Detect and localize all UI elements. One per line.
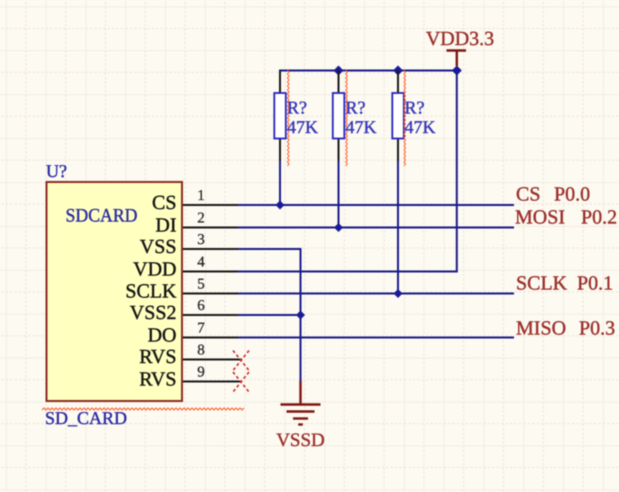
pin 3 stub — [183, 248, 238, 250]
svg-text:VSSD: VSSD — [276, 430, 325, 451]
junction R3/SCLK — [394, 289, 403, 298]
svg-text:P0.0: P0.0 — [554, 184, 590, 206]
svg-text:VDD3.3: VDD3.3 — [426, 28, 494, 50]
svg-text:R?: R? — [287, 98, 307, 118]
no-connect X on pin 9 — [233, 372, 249, 392]
wire VSS pin3 to ground — [238, 249, 301, 383]
svg-text:CS: CS — [516, 184, 540, 206]
svg-text:47K: 47K — [346, 117, 377, 137]
wire top bus connecting resistors — [280, 71, 457, 206]
wire SCLK net (pin5 to label) — [238, 293, 514, 295]
pin 7 stub — [183, 337, 238, 339]
svg-text:SCLK: SCLK — [125, 281, 177, 303]
pin 8 stub — [183, 359, 242, 361]
resistor R3 — [392, 71, 404, 162]
svg-text:3: 3 — [197, 232, 205, 248]
svg-text:47K: 47K — [287, 117, 318, 137]
junction R1/CS — [276, 201, 285, 210]
svg-text:8: 8 — [197, 343, 205, 359]
wire MISO net (pin7 to label) — [238, 337, 514, 339]
svg-text:MOSI: MOSI — [515, 207, 565, 229]
svg-text:9: 9 — [197, 365, 205, 381]
svg-text:6: 6 — [197, 298, 205, 314]
pin stubs (black) — [183, 205, 242, 382]
power symbol VDD3.3 — [447, 51, 467, 67]
svg-text:7: 7 — [197, 321, 205, 337]
no-connect X on pin 8 — [233, 351, 249, 371]
svg-text:4: 4 — [197, 255, 205, 271]
junction at R2 top — [334, 66, 344, 76]
svg-text:DI: DI — [155, 215, 176, 237]
svg-text:VDD: VDD — [133, 259, 176, 281]
svg-text:5: 5 — [197, 277, 205, 293]
pin 9 stub — [183, 381, 242, 383]
wire VSS2 pin6 to ground line — [238, 314, 301, 316]
ground symbol VSSD — [281, 381, 321, 425]
svg-text:1: 1 — [197, 188, 205, 204]
resistor R2 — [333, 71, 345, 162]
pin 2 stub — [183, 227, 238, 229]
wire MOSI net (pin2 to label) — [238, 227, 514, 229]
svg-text:R?: R? — [346, 98, 366, 118]
pin 4 stub — [183, 271, 238, 273]
svg-text:P0.3: P0.3 — [579, 318, 615, 340]
svg-text:P0.2: P0.2 — [581, 207, 617, 229]
svg-text:RVS: RVS — [139, 369, 176, 391]
svg-text:SDCARD: SDCARD — [66, 206, 138, 227]
error squiggle R3 — [404, 70, 406, 166]
svg-text:RVS: RVS — [139, 346, 176, 368]
wires (navy) — [238, 71, 514, 384]
junction at R3 top — [393, 66, 403, 76]
error squiggle under box — [42, 408, 244, 410]
junction at VDD stem — [452, 66, 462, 76]
junction VSS2/ground line — [296, 311, 305, 320]
svg-text:SD_CARD: SD_CARD — [45, 408, 127, 428]
svg-text:R?: R? — [405, 98, 425, 118]
pin 6 stub — [183, 314, 238, 316]
svg-text:DO: DO — [148, 325, 177, 347]
wire CS net (pin1 to label) — [238, 204, 514, 206]
pin 1 stub — [183, 204, 238, 206]
svg-text:SCLK: SCLK — [516, 273, 568, 295]
svg-text:47K: 47K — [405, 117, 436, 137]
wire R3 bottom to SCLK — [397, 161, 399, 294]
pin 5 stub — [183, 293, 238, 295]
svg-text:P0.1: P0.1 — [577, 273, 613, 295]
svg-text:U?: U? — [46, 161, 67, 181]
error squiggle R1 — [288, 70, 290, 166]
svg-text:VSS2: VSS2 — [130, 302, 177, 324]
pin numbers — [197, 188, 205, 381]
svg-text:VSS: VSS — [140, 236, 177, 258]
error squiggle R2 — [346, 70, 348, 166]
wire R2 bottom to MOSI — [338, 161, 340, 228]
component U? SDCARD box — [47, 182, 183, 401]
pin names — [125, 192, 177, 391]
resistor R1 — [274, 71, 286, 162]
wire VDD pin4 to VDD3.3 — [238, 71, 457, 272]
svg-text:2: 2 — [197, 211, 205, 227]
junction R2/MOSI — [334, 223, 343, 232]
svg-text:CS: CS — [152, 192, 176, 214]
svg-text:MISO: MISO — [516, 318, 566, 340]
